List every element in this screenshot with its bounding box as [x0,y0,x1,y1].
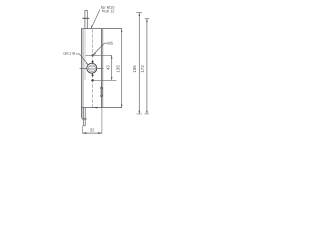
main circle (knob) [87,63,97,73]
upper hole dot [92,61,94,63]
dim 32 line [83,132,102,134]
leader for M10 label [92,10,100,28]
right-edge tab (slot) [100,87,102,89]
plate top edge [81,28,122,30]
dim 135 line [121,29,123,108]
svg-text:196: 196 [132,65,137,73]
rod (piston rod above plate) [85,11,87,29]
ext line left for 32 [82,126,84,134]
svg-text:GK1 B: GK1 B [63,51,75,56]
extension line lower (E2) with left arrow [91,79,117,81]
crosshair horizontal through circle [80,67,104,69]
svg-text:172: 172 [140,65,145,73]
dim 43 line [111,55,113,80]
plate right edge lines [100,29,102,108]
stub tick [82,118,87,121]
svg-text:32: 32 [90,127,95,132]
svg-text:Hub 12: Hub 12 [102,8,116,13]
bottom stub (spindle below plate) [83,108,85,126]
svg-text:M5: M5 [107,41,113,46]
plate bottom edge + extension to 135 [81,107,122,109]
left arrow on bottom line [93,107,97,108]
plate left edge lines [80,29,82,119]
dim 172 line [146,19,148,114]
dim 196 tick [136,12,142,14]
extension line upper (E1) [86,54,112,56]
rod flange tick [82,18,89,19]
centerline (dash-dot) [92,29,94,107]
ext line right for 32 [101,108,103,134]
lower hole dot [92,74,94,76]
dim 196 line [138,13,140,114]
svg-text:135: 135 [115,65,120,73]
bottom faint reference for 196/172 [137,113,150,115]
dim 172 tick [145,18,150,20]
inner slots [88,67,95,70]
inner circle [89,65,96,72]
leader GK1 B [76,54,88,65]
svg-text:43: 43 [106,65,111,70]
leader M5 [93,43,107,54]
vertical hole axis through circle [92,60,94,76]
